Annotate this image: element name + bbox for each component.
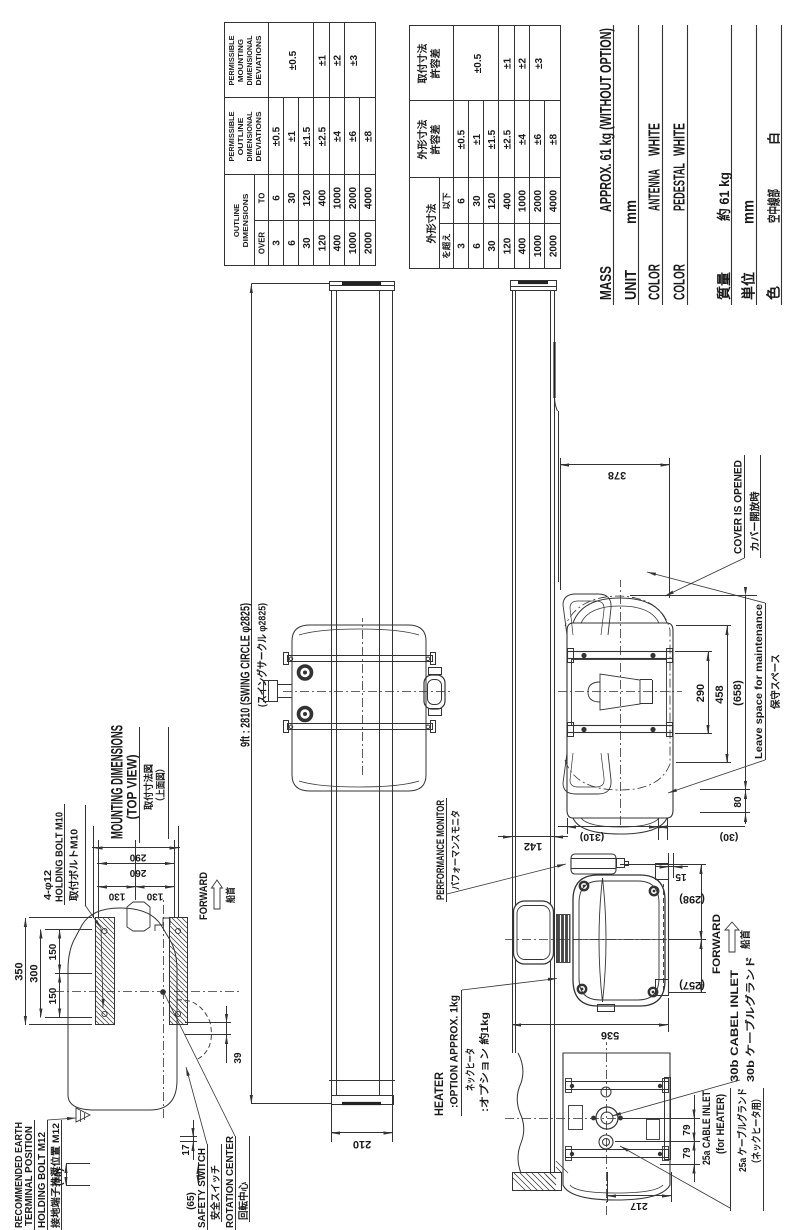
svg-text:PERFORMANCE MONITOR: PERFORMANCE MONITOR	[435, 800, 447, 900]
svg-text:(スイングサークル φ2825): (スイングサークル φ2825)	[256, 603, 269, 707]
svg-text:APPROX. 61 kg (WITHOUT OPTION: APPROX. 61 kg (WITHOUT OPTION)	[598, 28, 615, 212]
svg-text:HOLDING BOLT M10: HOLDING BOLT M10	[54, 812, 66, 902]
svg-text:210: 210	[353, 1138, 371, 1150]
svg-text:120: 120	[317, 234, 328, 251]
svg-text:DIMENSIONAL: DIMENSIONAL	[245, 35, 254, 86]
svg-text:接地端子推奨位置 M12: 接地端子推奨位置 M12	[50, 1123, 62, 1228]
svg-text:±2: ±2	[333, 55, 344, 66]
svg-text:回転中心: 回転中心	[237, 1182, 250, 1220]
svg-text:30b ケーブルグランド: 30b ケーブルグランド	[744, 956, 757, 1082]
svg-text:6: 6	[287, 240, 298, 246]
svg-text:6: 6	[272, 195, 283, 201]
svg-text:取付寸法図: 取付寸法図	[143, 764, 155, 810]
svg-text:空中線部: 空中線部	[767, 189, 782, 223]
svg-text:(310): (310)	[580, 831, 605, 843]
svg-text:30: 30	[472, 195, 483, 207]
svg-text:WHITE: WHITE	[672, 123, 689, 156]
svg-text:290: 290	[695, 684, 707, 702]
svg-text:30: 30	[487, 240, 498, 252]
svg-text:mm: mm	[623, 200, 640, 224]
svg-text:PEDESTAL: PEDESTAL	[672, 163, 689, 211]
svg-text:ネックヒータ: ネックヒータ	[465, 1048, 477, 1091]
svg-text:290: 290	[129, 852, 146, 863]
svg-text:±3: ±3	[349, 55, 360, 66]
svg-text:±2.5: ±2.5	[502, 129, 513, 149]
svg-text:安全スイッチ: 安全スイッチ	[209, 1165, 222, 1220]
svg-text:217: 217	[630, 1200, 648, 1212]
svg-text:（ネックヒータ用）: （ネックヒータ用）	[750, 1094, 763, 1168]
svg-text:150: 150	[48, 987, 59, 1004]
svg-text:±1.5: ±1.5	[487, 129, 498, 149]
svg-text:2000: 2000	[533, 189, 544, 212]
svg-text:120: 120	[502, 237, 513, 254]
svg-text:mm: mm	[741, 200, 758, 224]
svg-text:TERMINAL POSITION: TERMINAL POSITION	[23, 1126, 35, 1226]
svg-text:TO: TO	[258, 193, 267, 204]
svg-text:30: 30	[302, 237, 313, 249]
svg-text:1000: 1000	[333, 186, 344, 209]
svg-text:80: 80	[733, 796, 744, 808]
svg-text:ROTATION CENTER: ROTATION CENTER	[224, 1136, 236, 1228]
svg-text:±2.5: ±2.5	[317, 126, 328, 146]
svg-text:400: 400	[518, 237, 529, 254]
svg-text:300: 300	[29, 964, 41, 982]
svg-text:DEVIATIONS: DEVIATIONS	[254, 111, 263, 161]
svg-text:30b CABEL INLET: 30b CABEL INLET	[729, 970, 741, 1082]
svg-text:±2: ±2	[518, 58, 529, 69]
svg-text:120: 120	[487, 192, 498, 209]
svg-text:HEATER: HEATER	[434, 1071, 446, 1116]
svg-text:536: 536	[601, 1029, 619, 1041]
svg-text:色: 色	[766, 286, 782, 300]
svg-text:カバー開放時: カバー開放時	[749, 492, 762, 552]
svg-text:±4: ±4	[333, 131, 344, 142]
svg-text:ANTENNA: ANTENNA	[647, 169, 664, 211]
svg-text:保守スペース: 保守スペース	[769, 654, 782, 710]
svg-text:WHITE: WHITE	[647, 123, 664, 156]
svg-text:(298): (298)	[679, 893, 705, 905]
svg-text:±0.5: ±0.5	[288, 50, 299, 70]
svg-text:MASS: MASS	[598, 266, 615, 300]
svg-text:130: 130	[108, 891, 125, 902]
svg-text:±3: ±3	[534, 58, 545, 69]
svg-text::OPTION APPROX. 1kg: :OPTION APPROX. 1kg	[449, 995, 461, 1108]
svg-text:79: 79	[682, 1124, 693, 1136]
svg-text:±4: ±4	[518, 134, 529, 145]
svg-text:(257): (257)	[679, 979, 705, 991]
svg-text:142: 142	[524, 840, 542, 852]
svg-text:400: 400	[502, 192, 513, 209]
svg-text:±0.5: ±0.5	[272, 126, 283, 146]
svg-text:260: 260	[129, 867, 146, 878]
svg-text:DIMENSIONAL: DIMENSIONAL	[245, 111, 254, 162]
svg-text:UNIT: UNIT	[623, 270, 640, 300]
svg-text:25a ケーブルグランド: 25a ケーブルグランド	[736, 1088, 749, 1172]
svg-text:120: 120	[302, 189, 313, 206]
svg-text:外形寸法: 外形寸法	[416, 120, 429, 161]
svg-text:±0.5: ±0.5	[457, 129, 468, 149]
svg-text:6: 6	[472, 243, 483, 249]
svg-text:2000: 2000	[363, 231, 374, 254]
svg-text:6: 6	[457, 198, 468, 204]
svg-text:1000: 1000	[533, 234, 544, 257]
svg-text:許容差: 許容差	[429, 125, 442, 155]
svg-text:±1.5: ±1.5	[302, 126, 313, 146]
svg-text:39: 39	[233, 1052, 244, 1064]
svg-text:350: 350	[14, 962, 26, 980]
svg-text:3: 3	[457, 243, 468, 249]
svg-text:約 61 kg: 約 61 kg	[716, 172, 732, 221]
svg-text:4000: 4000	[363, 186, 374, 209]
svg-text:458: 458	[714, 685, 726, 703]
svg-text:(658): (658)	[732, 680, 744, 706]
svg-text:1000: 1000	[518, 189, 529, 212]
svg-text:130: 130	[146, 891, 163, 902]
svg-text:±1: ±1	[317, 55, 328, 66]
svg-text:±1: ±1	[502, 58, 513, 69]
svg-text:DIMENSIONS: DIMENSIONS	[241, 194, 250, 248]
svg-text:(30): (30)	[720, 831, 739, 843]
svg-text:PERMISSIBLE: PERMISSIBLE	[227, 35, 236, 85]
svg-text:DEVIATIONS: DEVIATIONS	[254, 35, 263, 85]
svg-text:4-φ12: 4-φ12	[42, 870, 54, 900]
svg-text:Leave space for maintenance: Leave space for maintenance	[753, 604, 765, 759]
svg-text:17: 17	[181, 1144, 192, 1156]
svg-text:HOLDING BOLT M12: HOLDING BOLT M12	[36, 1132, 48, 1228]
svg-text:MOUNTING: MOUNTING	[236, 38, 245, 82]
svg-text:30: 30	[287, 192, 298, 204]
svg-text:9ft : 2810 (SWING CIRCLE φ2825: 9ft : 2810 (SWING CIRCLE φ2825)	[237, 603, 252, 747]
svg-text:を超え: を超え	[442, 233, 452, 259]
svg-text:船首: 船首	[225, 887, 237, 903]
svg-text:取付寸法: 取付寸法	[416, 44, 429, 84]
svg-text:±8: ±8	[548, 134, 559, 145]
svg-text:（上面図）: （上面図）	[155, 764, 167, 806]
svg-text:79: 79	[682, 1147, 693, 1159]
svg-text:OVER: OVER	[258, 232, 267, 254]
svg-text:150: 150	[48, 943, 59, 960]
svg-text:±8: ±8	[363, 131, 374, 142]
svg-text:±6: ±6	[533, 134, 544, 145]
svg-text:2000: 2000	[548, 234, 559, 257]
svg-text:パフォーマンスモニタ: パフォーマンスモニタ	[450, 810, 462, 890]
svg-text:400: 400	[333, 234, 344, 251]
svg-text:15: 15	[675, 871, 687, 882]
svg-text:(TOP VIEW): (TOP VIEW)	[125, 755, 140, 820]
svg-text:SAFETY SWITCH: SAFETY SWITCH	[196, 1148, 208, 1228]
svg-text::オプション 約1kg: :オプション 約1kg	[478, 1012, 491, 1112]
svg-text:3: 3	[272, 240, 283, 246]
svg-text:以下: 以下	[442, 192, 452, 210]
svg-text:COVER IS OPENED: COVER IS OPENED	[733, 460, 745, 554]
svg-text:白: 白	[767, 132, 782, 145]
svg-text:COLOR: COLOR	[672, 264, 689, 300]
svg-text:FORWARD: FORWARD	[198, 872, 210, 920]
svg-text:単位: 単位	[741, 272, 757, 300]
svg-text:OUTLINE: OUTLINE	[236, 117, 245, 155]
svg-text:2000: 2000	[348, 186, 359, 209]
svg-text:(for HEATER): (for HEATER)	[715, 1094, 727, 1154]
svg-text:400: 400	[317, 189, 328, 206]
svg-text:25a CABLE INLET: 25a CABLE INLET	[701, 1091, 713, 1165]
svg-text:PERMISSIBLE: PERMISSIBLE	[227, 111, 236, 161]
svg-text:船首: 船首	[739, 930, 752, 949]
svg-text:±1: ±1	[472, 134, 483, 145]
svg-text:外形寸法: 外形寸法	[425, 204, 438, 245]
svg-text:4000: 4000	[548, 189, 559, 212]
svg-text:378: 378	[608, 469, 626, 481]
svg-text:±1: ±1	[287, 131, 298, 142]
svg-text:1000: 1000	[348, 231, 359, 254]
svg-text:取付ボルトM10: 取付ボルトM10	[68, 829, 81, 901]
svg-text:OUTLINE: OUTLINE	[232, 204, 241, 237]
svg-text:FORWARD: FORWARD	[711, 914, 723, 974]
svg-text:±6: ±6	[348, 131, 359, 142]
svg-text:COLOR: COLOR	[647, 264, 664, 300]
svg-text:±0.5: ±0.5	[473, 53, 484, 73]
svg-text:許容差: 許容差	[429, 49, 442, 79]
svg-text:質量: 質量	[716, 272, 732, 300]
